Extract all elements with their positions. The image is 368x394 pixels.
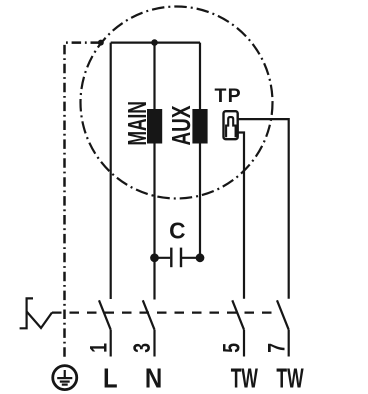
wire: top horizontal bus — [111, 41, 200, 43]
svg-text:1: 1 — [85, 343, 112, 353]
thermal protector TP contact plunger — [226, 117, 236, 137]
capacitor C wires — [155, 257, 201, 259]
terminal 7 contact — [277, 300, 289, 356]
svg-text:MAIN: MAIN — [124, 101, 152, 146]
wire: aux winding branch — [199, 43, 201, 258]
wire: main winding branch (to terminal 3) — [153, 43, 155, 300]
svg-text:C: C — [169, 218, 185, 244]
capacitor C right plate — [180, 248, 182, 268]
terminal row dashed line — [52, 312, 278, 314]
junction dot: enclosure to motor frame — [98, 40, 104, 46]
svg-text:3: 3 — [129, 343, 156, 353]
svg-text:5: 5 — [219, 343, 246, 353]
protective earth bar 1 — [57, 377, 72, 379]
protective earth stem — [64, 370, 66, 378]
terminal 3 contact — [143, 300, 155, 356]
junction dot: capacitor left — [150, 253, 159, 262]
winding MAIN — [147, 109, 162, 144]
wire: left branch (L to terminal 1) — [110, 43, 112, 299]
wire: TP to terminal 7 — [238, 119, 289, 299]
protective earth bar 2 — [60, 381, 70, 383]
wire: TP to terminal 5 — [237, 133, 244, 299]
protective earth bar 3 — [62, 384, 68, 386]
svg-text:TP: TP — [215, 85, 242, 107]
chassis zigzag — [27, 312, 52, 329]
junction dot: capacitor right — [196, 253, 205, 262]
junction dot: top bus / main branch — [151, 39, 158, 46]
terminal 5 contact — [232, 300, 244, 356]
svg-text:AUX: AUX — [168, 106, 196, 146]
motor boundary circle M1 — [81, 7, 273, 199]
terminal 1 contact — [99, 300, 111, 356]
winding AUX — [192, 109, 207, 144]
svg-text:7: 7 — [263, 343, 290, 353]
protective earth symbol circle — [53, 366, 77, 390]
svg-text:TW: TW — [276, 363, 303, 394]
thermal protector TP body — [224, 111, 238, 139]
svg-text:N: N — [145, 363, 162, 394]
svg-text:TW: TW — [231, 363, 258, 394]
enclosure dash-dot line — [65, 43, 101, 357]
chassis bracket symbol — [20, 298, 33, 328]
capacitor C left plate — [170, 248, 172, 268]
svg-text:L: L — [103, 363, 118, 394]
